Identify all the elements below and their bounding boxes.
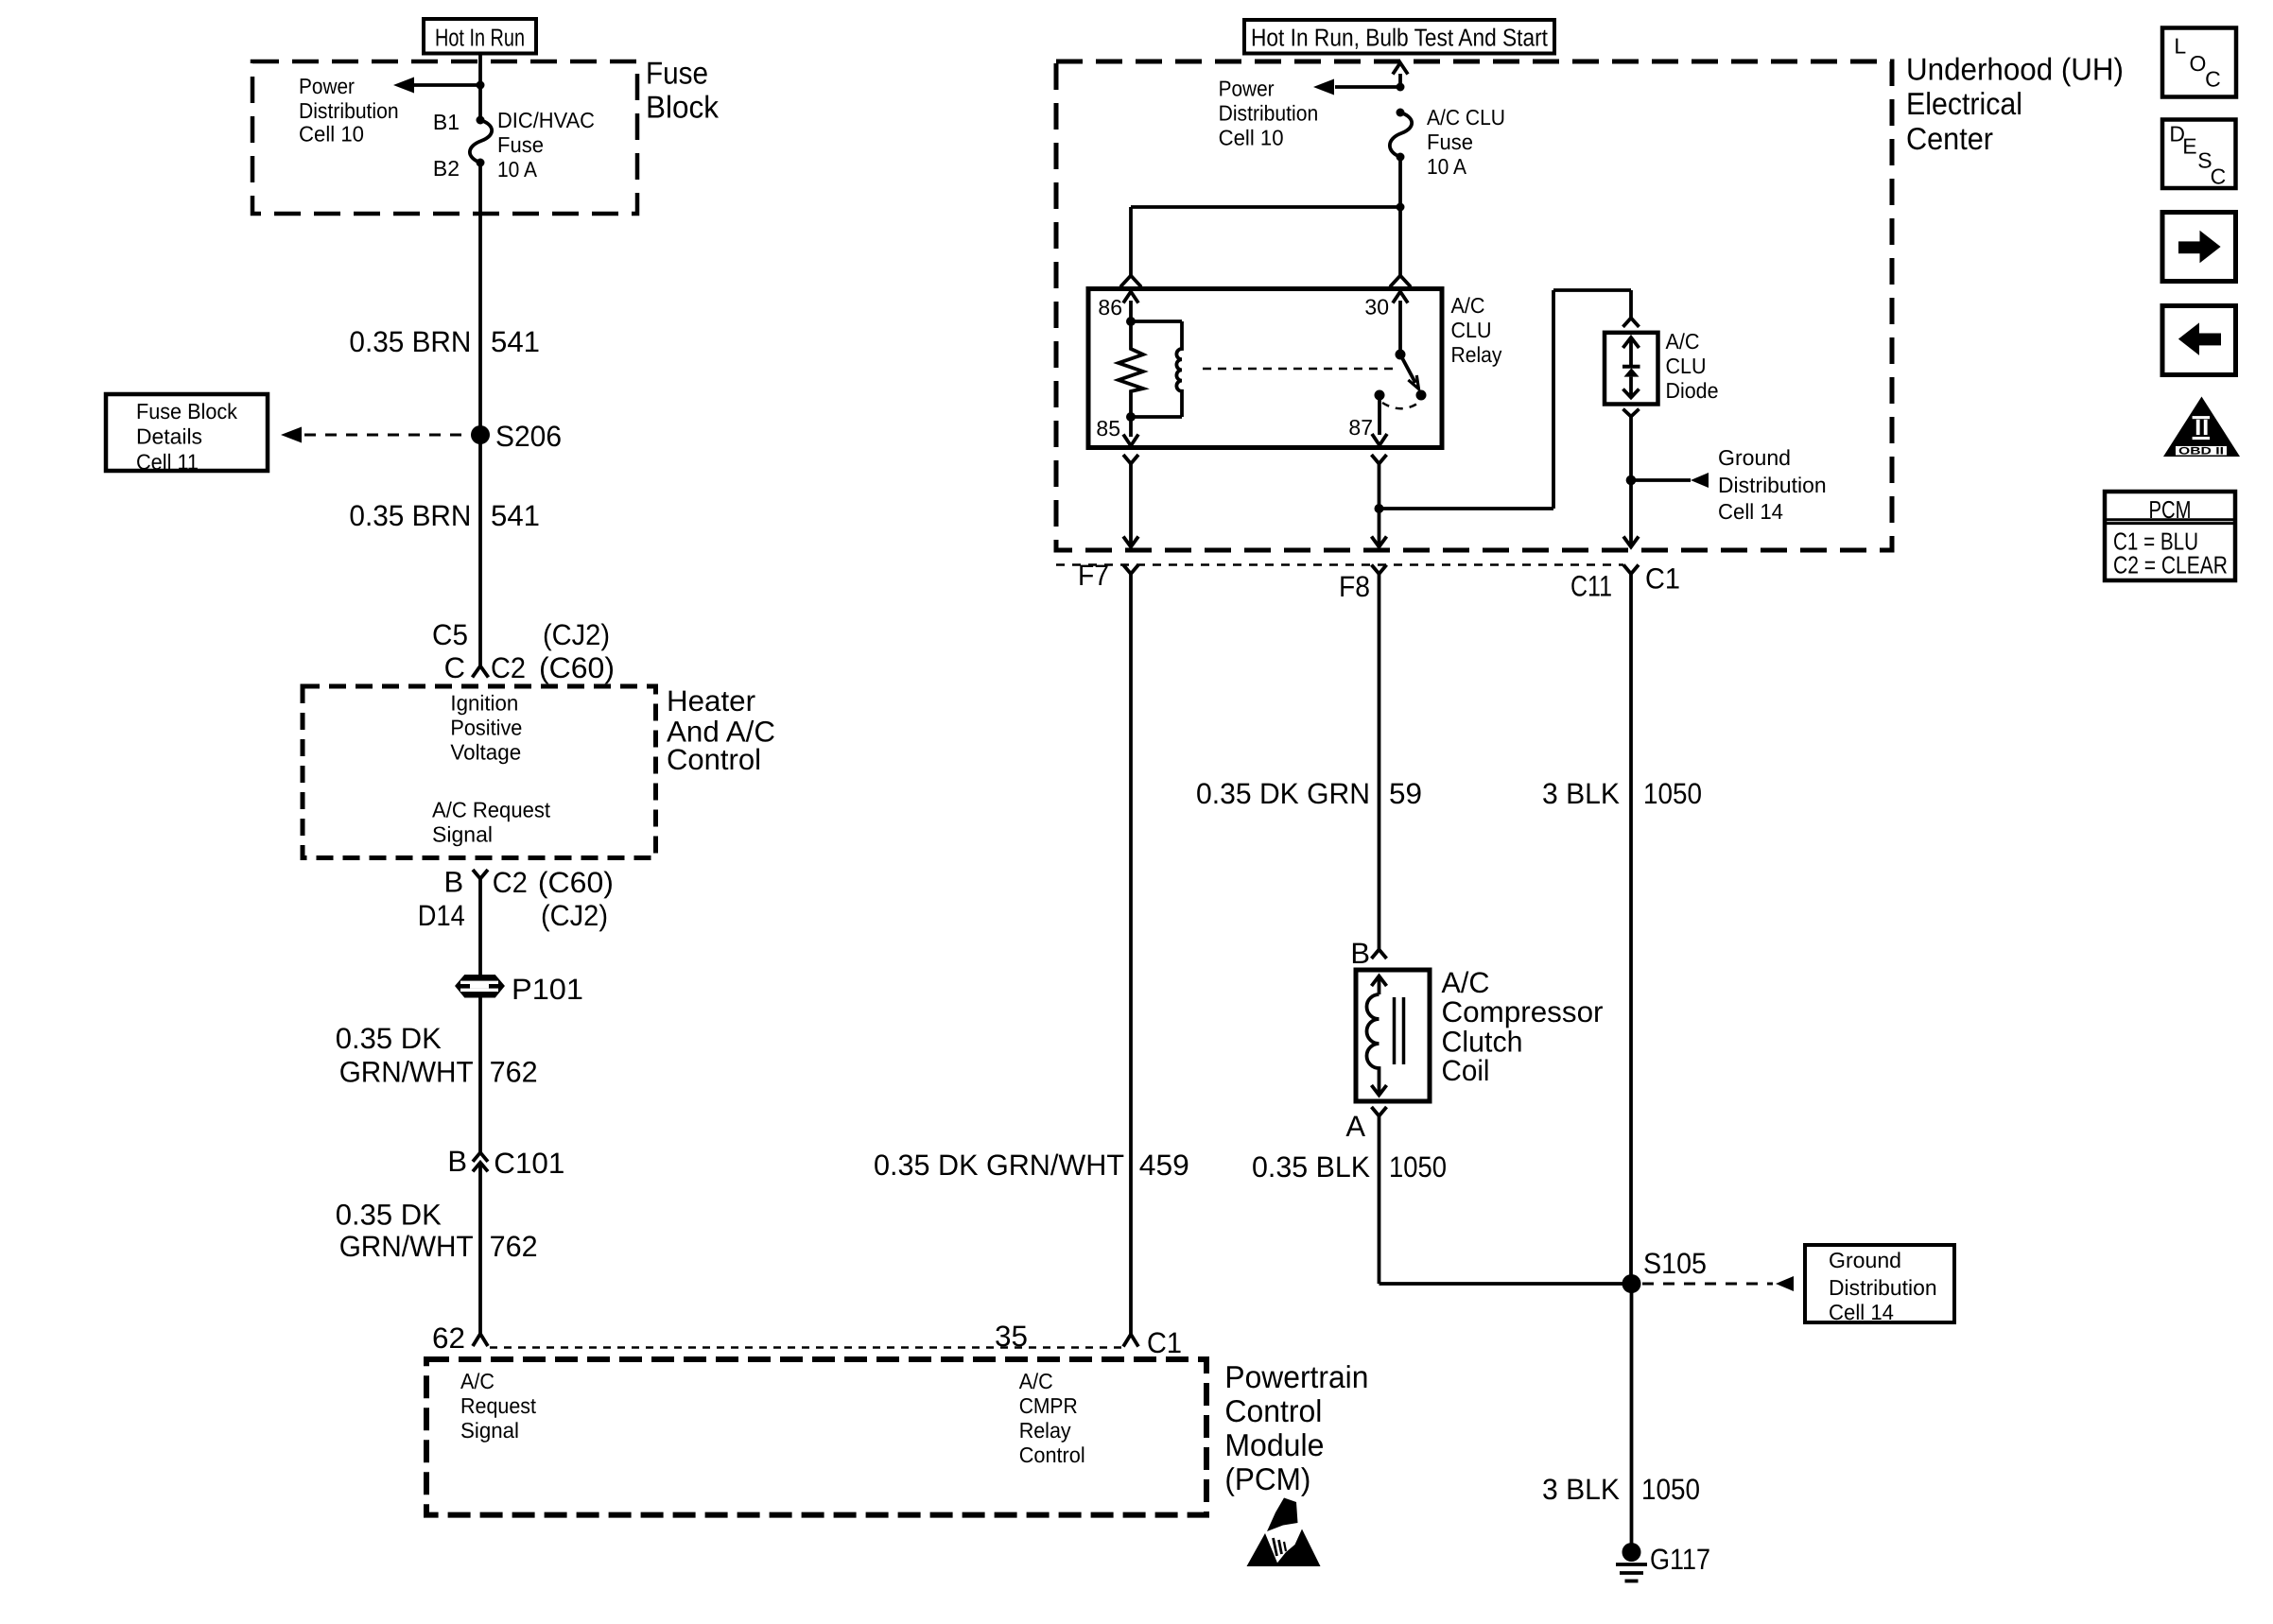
svg-text:Hot In Run, Bulb Test And Star: Hot In Run, Bulb Test And Start [1251, 24, 1549, 52]
svg-text:(C60): (C60) [538, 866, 614, 899]
svg-text:3 BLK: 3 BLK [1542, 1473, 1620, 1506]
svg-text:CMPR: CMPR [1019, 1393, 1078, 1418]
svg-text:62: 62 [432, 1322, 465, 1355]
svg-text:0.35 DK: 0.35 DK [336, 1198, 442, 1231]
svg-text:0.35 DK GRN: 0.35 DK GRN [1196, 777, 1370, 810]
svg-text:Fuse: Fuse [646, 55, 708, 90]
svg-text:Coil: Coil [1442, 1054, 1490, 1087]
svg-text:G117: G117 [1650, 1543, 1710, 1576]
svg-text:Center: Center [1906, 121, 1993, 156]
svg-text:30: 30 [1364, 295, 1389, 320]
svg-text:Compressor: Compressor [1442, 995, 1604, 1028]
svg-text:Cell 14: Cell 14 [1829, 1300, 1894, 1324]
svg-text:Positive: Positive [450, 715, 522, 739]
svg-text:Power: Power [299, 74, 355, 98]
svg-text:Module: Module [1224, 1427, 1324, 1462]
svg-text:F8: F8 [1339, 570, 1370, 603]
svg-text:541: 541 [491, 325, 540, 358]
svg-text:A/C Request: A/C Request [432, 798, 551, 822]
svg-text:Block: Block [646, 89, 719, 124]
svg-text:S206: S206 [495, 420, 562, 453]
svg-text:B: B [444, 866, 464, 899]
svg-text:762: 762 [490, 1230, 538, 1263]
svg-text:C101: C101 [494, 1147, 564, 1180]
svg-text:D14: D14 [418, 899, 465, 932]
svg-text:O: O [2190, 51, 2207, 76]
svg-text:0.35 DK GRN/WHT: 0.35 DK GRN/WHT [874, 1149, 1124, 1182]
svg-text:Hot In Run: Hot In Run [435, 24, 525, 52]
svg-text:GRN/WHT: GRN/WHT [339, 1230, 474, 1263]
svg-text:(C60): (C60) [539, 651, 615, 684]
svg-text:Fuse: Fuse [497, 132, 544, 157]
svg-text:A: A [1345, 1110, 1365, 1143]
svg-text:1050: 1050 [1643, 777, 1702, 810]
svg-text:A/C: A/C [460, 1369, 495, 1393]
svg-text:0.35 DK: 0.35 DK [336, 1022, 442, 1055]
svg-text:C1: C1 [1147, 1326, 1182, 1359]
svg-text:B1: B1 [433, 110, 460, 134]
svg-text:Powertrain: Powertrain [1224, 1359, 1368, 1394]
svg-text:OBD II: OBD II [2178, 446, 2224, 458]
svg-text:87: 87 [1348, 415, 1373, 440]
svg-text:Control: Control [667, 743, 761, 776]
svg-text:Details: Details [136, 424, 202, 449]
svg-text:Signal: Signal [432, 822, 493, 847]
svg-text:85: 85 [1096, 416, 1120, 441]
svg-text:B: B [447, 1145, 467, 1178]
svg-text:Relay: Relay [1019, 1418, 1071, 1443]
svg-text:(CJ2): (CJ2) [543, 618, 610, 651]
svg-text:A/C: A/C [1666, 329, 1700, 354]
svg-text:A/C: A/C [1442, 966, 1490, 999]
svg-text:E: E [2182, 134, 2196, 159]
svg-text:0.35 BRN: 0.35 BRN [349, 325, 471, 358]
svg-text:Cell 11: Cell 11 [136, 450, 199, 475]
svg-text:Ground: Ground [1829, 1248, 1901, 1272]
svg-text:A/C: A/C [1019, 1369, 1053, 1393]
svg-text:Ignition: Ignition [450, 691, 518, 716]
svg-text:(PCM): (PCM) [1224, 1461, 1310, 1496]
svg-text:Electrical: Electrical [1906, 86, 2022, 121]
svg-text:P101: P101 [512, 973, 583, 1006]
svg-text:10 A: 10 A [497, 157, 538, 181]
svg-text:A/C: A/C [1451, 293, 1485, 318]
svg-text:Ground: Ground [1718, 445, 1791, 470]
svg-text:GRN/WHT: GRN/WHT [339, 1056, 474, 1089]
svg-text:L: L [2174, 34, 2186, 59]
svg-text:Cell 14: Cell 14 [1718, 499, 1783, 524]
svg-text:541: 541 [491, 499, 540, 532]
svg-text:(CJ2): (CJ2) [541, 899, 608, 932]
svg-text:DIC/HVAC: DIC/HVAC [497, 108, 595, 132]
svg-text:Cell 10: Cell 10 [299, 122, 364, 147]
svg-text:C: C [2205, 67, 2221, 92]
svg-text:Underhood (UH): Underhood (UH) [1906, 51, 2124, 86]
svg-text:Fuse: Fuse [1427, 130, 1473, 154]
svg-text:1050: 1050 [1389, 1150, 1447, 1183]
svg-text:Distribution: Distribution [1718, 473, 1827, 497]
svg-text:C1: C1 [1645, 562, 1680, 596]
svg-text:C2: C2 [491, 651, 526, 684]
svg-text:Request: Request [460, 1393, 537, 1418]
svg-text:Cell 10: Cell 10 [1219, 126, 1284, 150]
svg-text:459: 459 [1139, 1149, 1189, 1182]
svg-text:PCM: PCM [2149, 495, 2192, 524]
svg-text:Diode: Diode [1666, 378, 1719, 403]
svg-text:3 BLK: 3 BLK [1542, 777, 1620, 810]
svg-text:Control: Control [1224, 1393, 1322, 1428]
svg-text:86: 86 [1098, 295, 1122, 320]
svg-text:C11: C11 [1570, 570, 1612, 603]
svg-text:Voltage: Voltage [450, 739, 521, 764]
svg-text:A/C CLU: A/C CLU [1427, 105, 1505, 130]
svg-text:C5: C5 [432, 618, 468, 651]
svg-text:CLU: CLU [1666, 354, 1707, 378]
svg-text:Distribution: Distribution [1829, 1275, 1937, 1300]
svg-text:Control: Control [1019, 1443, 1085, 1467]
svg-text:B2: B2 [433, 156, 460, 181]
svg-text:Power: Power [1219, 77, 1275, 101]
svg-text:59: 59 [1389, 777, 1422, 810]
svg-text:Signal: Signal [460, 1418, 519, 1443]
svg-text:Heater: Heater [667, 684, 755, 717]
svg-text:B: B [1350, 937, 1370, 970]
svg-text:C: C [2211, 164, 2227, 189]
svg-text:762: 762 [490, 1056, 538, 1089]
svg-text:Distribution: Distribution [299, 98, 399, 123]
svg-text:1050: 1050 [1641, 1473, 1700, 1506]
svg-text:Distribution: Distribution [1219, 101, 1319, 126]
svg-text:0.35 BRN: 0.35 BRN [349, 499, 471, 532]
svg-text:S105: S105 [1643, 1247, 1707, 1280]
svg-text:10 A: 10 A [1427, 154, 1467, 179]
svg-text:C2 = CLEAR: C2 = CLEAR [2113, 550, 2228, 579]
svg-text:C: C [444, 651, 465, 684]
svg-text:0.35 BLK: 0.35 BLK [1252, 1150, 1370, 1183]
svg-text:Fuse Block: Fuse Block [136, 399, 237, 423]
svg-text:Relay: Relay [1451, 342, 1502, 367]
svg-text:F7: F7 [1078, 559, 1109, 592]
svg-text:CLU: CLU [1451, 318, 1492, 342]
svg-text:C2: C2 [493, 866, 528, 899]
svg-text:35: 35 [995, 1320, 1028, 1353]
